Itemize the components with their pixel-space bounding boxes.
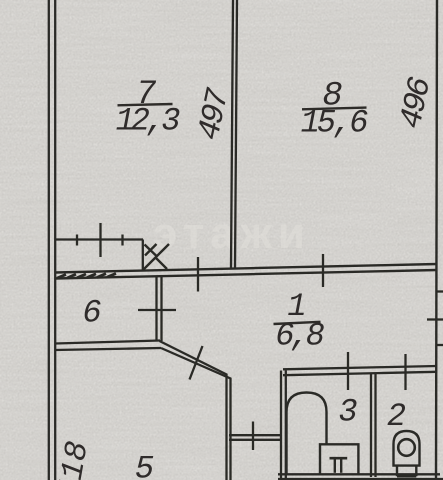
svg-text:6: 6	[82, 295, 101, 332]
svg-text:12,3: 12,3	[116, 103, 181, 140]
svg-text:3: 3	[338, 394, 357, 431]
svg-text:5: 5	[135, 450, 154, 480]
svg-text:2: 2	[387, 398, 406, 435]
